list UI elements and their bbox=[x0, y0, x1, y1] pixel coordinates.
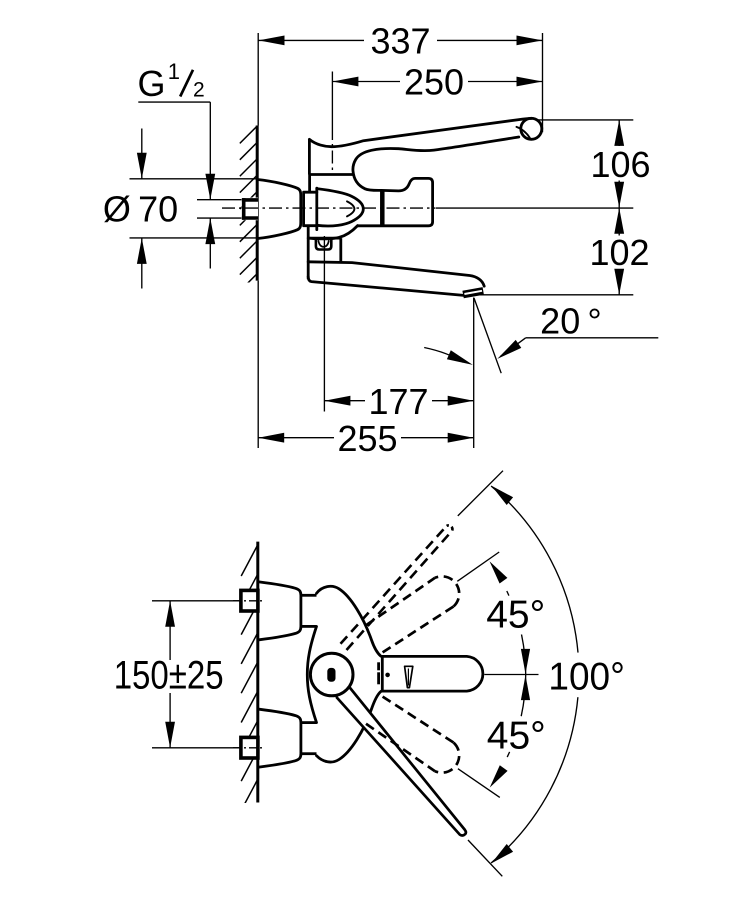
svg-text:102: 102 bbox=[589, 232, 649, 273]
svg-text:45°: 45° bbox=[486, 594, 545, 637]
svg-text:1: 1 bbox=[168, 59, 180, 84]
svg-text:337: 337 bbox=[370, 21, 430, 62]
svg-text:177: 177 bbox=[368, 381, 428, 422]
svg-text:250: 250 bbox=[404, 62, 464, 103]
svg-text:Ø 70: Ø 70 bbox=[103, 189, 178, 230]
svg-text:20 °: 20 ° bbox=[540, 300, 602, 341]
svg-text:45°: 45° bbox=[487, 714, 546, 757]
svg-text:106: 106 bbox=[590, 144, 650, 185]
svg-text:100°: 100° bbox=[548, 655, 625, 698]
svg-text:150±25: 150±25 bbox=[114, 654, 224, 698]
svg-text:G: G bbox=[138, 63, 166, 104]
svg-text:255: 255 bbox=[337, 418, 397, 459]
svg-text:2: 2 bbox=[193, 78, 205, 101]
